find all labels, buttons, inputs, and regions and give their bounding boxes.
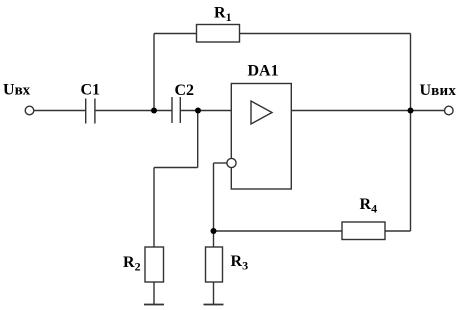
resistor R2 — [145, 247, 164, 282]
wire op-amp output to terminal — [291, 110, 444, 112]
node C junction dot (R3/R4) — [211, 228, 217, 234]
svg-text:R4: R4 — [360, 196, 378, 216]
wire horizontal to R2 branch — [154, 167, 198, 169]
wire inverting input left — [214, 162, 227, 164]
svg-text:Uвх: Uвх — [3, 82, 31, 99]
output terminal circle — [445, 106, 454, 115]
wire R4 to right vertical — [385, 230, 411, 232]
svg-text:DA1: DA1 — [248, 63, 279, 80]
svg-text:C1: C1 — [81, 82, 101, 99]
capacitor C2 — [172, 97, 180, 123]
svg-text:Uвих: Uвих — [420, 82, 457, 99]
ground (R3) — [204, 304, 224, 306]
op-amp triangle — [251, 101, 272, 124]
wire R3 to ground — [213, 282, 215, 304]
wire top rail left — [154, 33, 197, 35]
resistor R3 — [206, 247, 223, 282]
node B junction dot — [195, 108, 201, 114]
resistor R1 — [197, 25, 240, 43]
wire C2 to op-amp input — [180, 110, 231, 112]
wire node A to C2 — [154, 110, 172, 112]
capacitor C1 — [86, 99, 95, 124]
svg-text:R3: R3 — [231, 253, 249, 273]
op-amp inverting input circle — [227, 158, 236, 167]
resistor R4 — [342, 222, 385, 240]
wire right vertical (top rail to R4) — [410, 34, 412, 232]
wire top rail right — [240, 33, 411, 35]
wire R2 to ground — [153, 282, 155, 304]
output node junction dot — [408, 108, 414, 114]
wire node A up to top rail — [153, 34, 155, 111]
wire input to C1 — [34, 110, 86, 112]
node A junction dot — [151, 108, 157, 114]
ground (R2) — [144, 304, 164, 306]
input terminal circle — [25, 106, 34, 115]
wire node B down — [197, 111, 199, 168]
wire down to R2 — [153, 168, 155, 248]
svg-text:C2: C2 — [175, 82, 195, 99]
wire node C to R4 — [214, 230, 343, 232]
wire inverting branch down to R3 — [213, 163, 215, 247]
wire C1 to node A — [95, 110, 154, 112]
svg-text:R1: R1 — [214, 5, 232, 25]
svg-text:R2: R2 — [123, 254, 141, 274]
op-amp DA1 body — [231, 84, 291, 190]
